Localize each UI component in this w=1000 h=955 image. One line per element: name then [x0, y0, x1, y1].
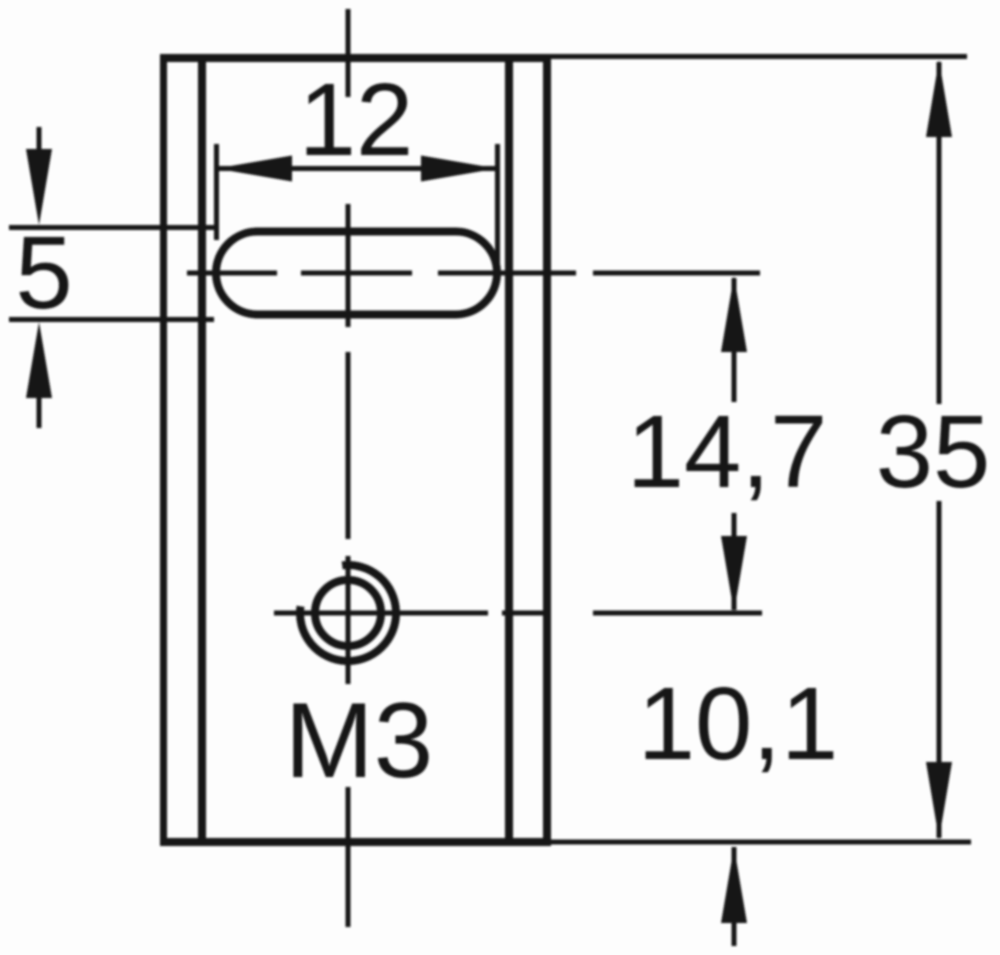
- svg-text:14,7: 14,7: [627, 394, 827, 509]
- svg-text:5: 5: [15, 215, 72, 330]
- svg-text:35: 35: [876, 394, 991, 509]
- svg-text:10,1: 10,1: [638, 666, 838, 781]
- svg-text:M3: M3: [285, 680, 434, 800]
- svg-text:12: 12: [299, 62, 414, 177]
